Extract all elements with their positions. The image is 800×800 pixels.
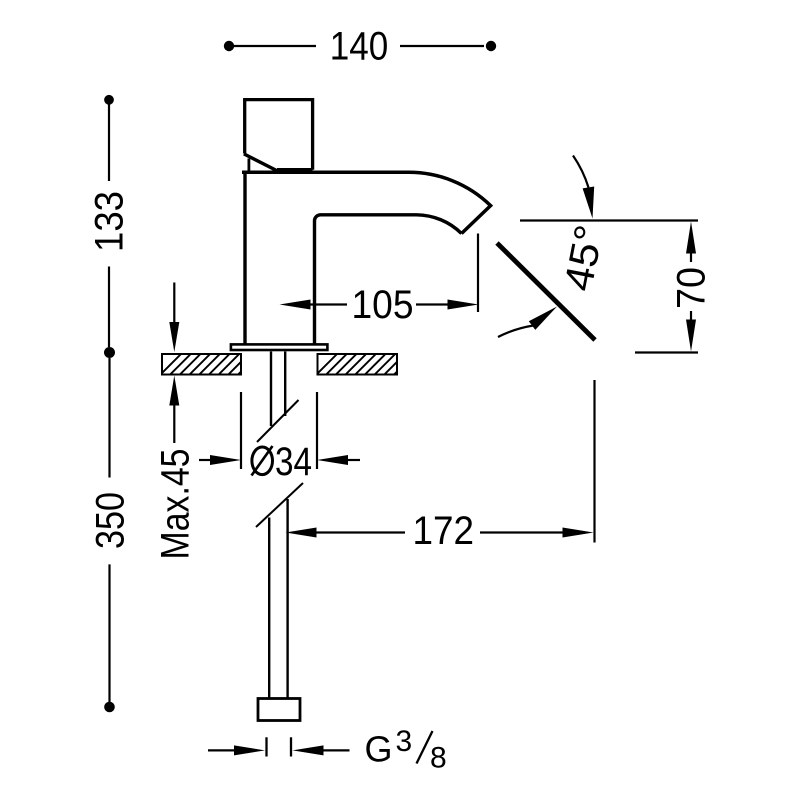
svg-text:140: 140 (330, 25, 389, 69)
svg-text:8: 8 (430, 742, 447, 775)
svg-text:3: 3 (396, 725, 413, 758)
svg-text:350: 350 (89, 492, 133, 549)
svg-text:Max.45: Max.45 (154, 449, 198, 560)
svg-text:105: 105 (352, 283, 414, 327)
svg-text:172: 172 (413, 509, 475, 553)
svg-text:70: 70 (670, 267, 714, 309)
svg-text:34: 34 (275, 440, 312, 484)
svg-text:G: G (365, 729, 393, 770)
svg-text:133: 133 (88, 191, 132, 252)
